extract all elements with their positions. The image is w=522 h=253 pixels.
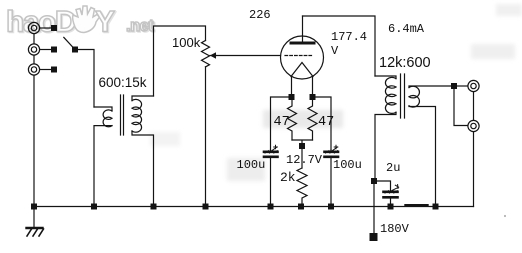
transformer T2 secondary	[409, 86, 454, 88]
junction B+	[371, 178, 377, 184]
switch contact 1	[51, 25, 57, 31]
grid (dashed)	[285, 55, 312, 57]
transformer T1 secondary	[132, 96, 154, 101]
wire J3 to contact	[40, 69, 51, 71]
switch contact 2	[51, 47, 57, 53]
bus junctions	[31, 204, 37, 210]
ground bus	[34, 206, 474, 208]
svg-text:100k: 100k	[172, 35, 201, 50]
svg-text:.net: .net	[126, 17, 154, 35]
input jack J3	[28, 64, 39, 75]
svg-text:V: V	[331, 44, 339, 58]
switch arm SW1	[64, 37, 73, 47]
capacitor C1 100u	[270, 149, 272, 152]
svg-text:haoD: haoD	[6, 6, 76, 39]
wire wiper to grid	[216, 55, 281, 57]
junction output	[451, 83, 457, 89]
filament leads	[292, 77, 313, 94]
capacitor C3 2u	[377, 181, 391, 190]
wire to left 100u	[271, 97, 289, 150]
svg-text:600:15k: 600:15k	[99, 75, 147, 90]
switch contact 3	[51, 67, 57, 73]
resistor R2 47	[308, 100, 317, 140]
terminal 180V	[370, 233, 378, 241]
tube V1 envelope	[281, 36, 324, 79]
wire plate to T2	[303, 16, 376, 76]
ground symbol	[33, 210, 35, 228]
svg-text:12k:600: 12k:600	[379, 55, 431, 71]
junction C3 bus	[388, 204, 394, 210]
input jack J1	[28, 22, 39, 33]
transformer T1 core	[121, 95, 124, 135]
svg-text:6.4mA: 6.4mA	[388, 22, 425, 36]
svg-text:226: 226	[249, 8, 271, 22]
wire switch to x94	[78, 50, 94, 108]
capacitor C2 100u	[330, 149, 332, 152]
svg-text:12.7V: 12.7V	[286, 153, 323, 167]
svg-text:47: 47	[318, 115, 334, 130]
resistor R1 47	[288, 100, 297, 140]
wire to right 100u	[316, 97, 332, 150]
switch pivot contact	[72, 47, 78, 53]
hand	[73, 6, 100, 33]
svg-text:Y: Y	[95, 6, 115, 39]
wire B+ terminal	[373, 184, 375, 233]
potentiometer VR1 100k	[202, 41, 210, 67]
junction filament left	[289, 94, 295, 100]
svg-text:2k: 2k	[280, 170, 296, 185]
wire junction down to P2	[454, 89, 468, 126]
wire P1 to P2	[473, 92, 475, 121]
wire junction to P1	[457, 85, 468, 87]
filament	[291, 63, 313, 77]
junction cathode	[299, 143, 305, 149]
transformer T2 core	[401, 74, 405, 118]
wire J1 to contact	[40, 27, 51, 29]
wire pot bottom	[205, 67, 207, 207]
transformer T2 12k:600 primary	[375, 76, 396, 79]
bold dash on bus	[406, 204, 428, 206]
svg-text:180V: 180V	[380, 222, 410, 236]
wiper arrow	[210, 55, 216, 57]
wire P2 to bus	[473, 132, 475, 207]
junction filament right	[310, 94, 316, 100]
input jack J2	[28, 44, 39, 55]
resistor R3 2k	[297, 168, 307, 207]
svg-text:177.4: 177.4	[331, 30, 367, 44]
output jack P2	[468, 120, 479, 131]
svg-text:100u: 100u	[333, 158, 362, 172]
svg-text:2u: 2u	[386, 161, 400, 175]
svg-text:100u: 100u	[237, 158, 266, 172]
wire J2 to contact	[40, 49, 51, 51]
watermark logo haoDIY.net	[6, 6, 156, 40]
wire joining R1 R2	[292, 140, 313, 168]
wire secondary top to pot	[154, 26, 206, 96]
plate lead	[302, 16, 304, 42]
wire jack ground bus	[33, 34, 35, 207]
output jack P1	[468, 80, 479, 91]
plate	[291, 42, 314, 45]
svg-text:47: 47	[274, 115, 290, 130]
transformer T1 600:15k primary	[94, 107, 112, 111]
